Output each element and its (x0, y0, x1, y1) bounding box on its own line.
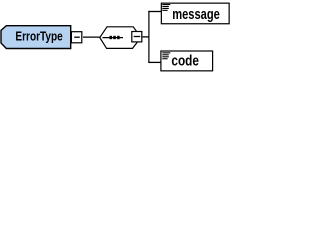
message icon bars (162, 4, 170, 6)
svg-text:code: code (171, 51, 199, 68)
message element box (161, 3, 229, 24)
svg-text:message: message (172, 5, 220, 22)
sequence icon squares (110, 36, 113, 39)
sequence icon line (102, 37, 123, 39)
code element box (161, 51, 213, 71)
wire 1 (83, 36, 100, 38)
svg-text:ErrorType: ErrorType (15, 29, 62, 44)
wire 2 (142, 36, 149, 38)
code icon bars (162, 52, 170, 54)
expand minus box 2 (132, 32, 142, 42)
stub to code (148, 61, 161, 63)
sequence hexagon (100, 27, 141, 49)
stub to message (148, 11, 161, 13)
junction vertical (148, 11, 150, 63)
complexType ErrorType box (1, 26, 71, 49)
expand minus box 1 (71, 32, 81, 43)
